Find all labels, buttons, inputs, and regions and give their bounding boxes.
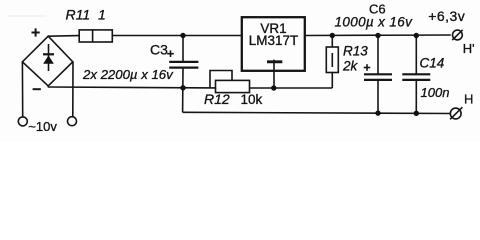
svg-text:2k: 2k [342, 58, 359, 73]
svg-text:R13: R13 [343, 44, 368, 59]
svg-text:1: 1 [98, 6, 106, 22]
svg-text:~10v: ~10v [28, 119, 57, 134]
svg-text:+6,3v: +6,3v [428, 8, 465, 24]
svg-text:2x 2200µ x 16v: 2x 2200µ x 16v [82, 67, 174, 82]
svg-text:1000µ x 16v: 1000µ x 16v [335, 15, 414, 30]
svg-text:H: H [464, 92, 473, 107]
svg-text:H': H' [463, 41, 475, 56]
svg-text:LM317T: LM317T [249, 33, 299, 48]
svg-text:R12: R12 [204, 91, 230, 107]
svg-text:R11: R11 [66, 6, 91, 22]
svg-text:C14: C14 [420, 56, 445, 71]
svg-text:10k: 10k [241, 92, 263, 107]
svg-text:100n: 100n [421, 85, 450, 100]
svg-text:C3: C3 [150, 41, 168, 57]
